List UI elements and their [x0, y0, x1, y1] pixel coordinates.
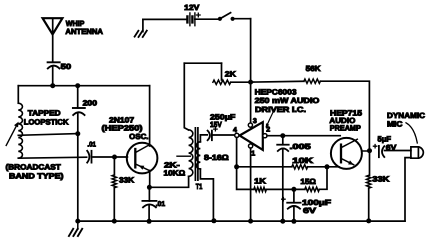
- junction emitter/.01/xfmr: [147, 185, 152, 190]
- op-amp U1 pin 2 terminal: [263, 134, 267, 138]
- wire supply vertical to pin 3: [250, 19, 252, 123]
- resistor 56K: [304, 79, 320, 83]
- microphone dynamic mic symbol: [411, 147, 423, 158]
- svg-text:PREAMP: PREAMP: [330, 123, 361, 132]
- inductor L1 tapped loopstick: [18, 103, 22, 158]
- transformer T1 secondary winding: [197, 142, 201, 169]
- op-amp U1 HEPC6003 triangle: [240, 122, 263, 150]
- wire 200pF top lead: [77, 86, 79, 108]
- transistor Q2 emitter: [341, 158, 354, 164]
- wire 100uF to ground rail: [293, 207, 295, 222]
- wire collector stub: [362, 150, 370, 152]
- transformer T1 primary tap leader: [177, 155, 190, 157]
- svg-text:T1: T1: [196, 182, 203, 191]
- capacitor .01 emitter bypass: [142, 201, 156, 207]
- wire mic bottom lead: [405, 158, 411, 221]
- svg-text:10KΩ: 10KΩ: [164, 169, 186, 178]
- capacitor 250uF: [208, 131, 212, 141]
- svg-text:250 mW AUDIO: 250 mW AUDIO: [255, 96, 320, 105]
- transistor Q2 HEP715 circle: [331, 138, 362, 169]
- transistor Q1 base bar: [134, 149, 136, 167]
- junction collector node: [367, 148, 372, 153]
- svg-text:10K: 10K: [292, 156, 313, 165]
- svg-text:DRIVER I.C.: DRIVER I.C.: [255, 105, 306, 114]
- pointer DRIVER IC to pin 2: [266, 112, 273, 128]
- svg-text:BAND TYPE): BAND TYPE): [9, 171, 64, 180]
- wire emitter down: [149, 171, 151, 188]
- wire 100uF top lead: [293, 189, 295, 202]
- resistor 2K: [213, 80, 231, 84]
- wire battery ground drop: [142, 19, 144, 31]
- svg-text:TAPPED: TAPPED: [28, 108, 61, 117]
- junction rail/tank: [75, 219, 80, 224]
- svg-text:2: 2: [266, 127, 270, 134]
- svg-text:.005: .005: [290, 142, 312, 151]
- op-amp U1 pin 1 terminal: [249, 144, 253, 148]
- wire .005 to ground rail: [282, 149, 284, 221]
- wire antenna feed: [52, 18, 54, 62]
- wire 2K loop left vertical: [184, 63, 188, 130]
- svg-text:50: 50: [61, 62, 72, 71]
- wire 33K bottom lead: [113, 188, 115, 221]
- wire switch to supply corner: [233, 18, 251, 20]
- junction rail/33K left: [112, 219, 117, 224]
- transistor Q1 emitter: [135, 164, 150, 171]
- wire loopstick tap: [18, 134, 78, 136]
- wire 2K to supply junction: [231, 81, 251, 83]
- wire pin 1 to ground rail: [250, 148, 252, 221]
- junction rail/secondary: [211, 218, 216, 223]
- wire .01 cap to 2N107 base: [93, 156, 127, 158]
- label 250uF plus: [214, 127, 217, 130]
- svg-text:12V: 12V: [184, 3, 200, 12]
- wire battery to switch: [195, 18, 220, 20]
- capacitor 5uF: [379, 146, 384, 157]
- label battery plus: [197, 13, 201, 17]
- junction tap/200pF: [75, 131, 80, 136]
- wire 50pF to tank rail: [52, 66, 54, 86]
- svg-text:2K: 2K: [225, 70, 237, 79]
- wire emitter to transformer primary bottom: [149, 176, 188, 187]
- svg-text:15V: 15V: [210, 120, 223, 129]
- wire 1K branch down: [237, 167, 254, 190]
- pointer MIC label: [406, 123, 417, 143]
- wire pin 2 to HEP715 collector wire: [267, 135, 340, 137]
- svg-text:HEPC6003: HEPC6003: [255, 87, 297, 96]
- junction tank rail/200pF: [75, 83, 80, 88]
- junction 100uF top: [291, 187, 296, 192]
- transistor Q2 collector: [341, 139, 357, 148]
- svg-text:200: 200: [83, 99, 98, 108]
- svg-text:56K: 56K: [306, 64, 322, 73]
- capacitor 50pF: [48, 62, 60, 68]
- svg-text:1: 1: [251, 150, 255, 157]
- wire .005 branch: [282, 136, 284, 145]
- junction pin2/.005: [280, 133, 285, 138]
- junction rail/.005: [280, 219, 285, 224]
- svg-text:(BROADCAST: (BROADCAST: [6, 162, 62, 171]
- junction rail/100uF: [291, 219, 296, 224]
- junction rail/.01 bypass: [147, 219, 152, 224]
- transformer T1 primary winding: [189, 130, 193, 177]
- ground chassis at battery: [135, 31, 147, 37]
- junction V+ rail: [248, 80, 253, 85]
- junction base/33K: [112, 155, 117, 160]
- junction rail/33K right: [366, 218, 371, 223]
- wire 1K to 15 ohm: [266, 188, 304, 190]
- inductor L1 slider arrow: [6, 122, 18, 146]
- wire secondary bottom lead: [200, 169, 213, 221]
- switch S1 contact right: [231, 17, 235, 21]
- wire V+ to 56K: [251, 80, 304, 83]
- resistor 33K oscillator bias: [112, 175, 116, 188]
- transformer T1 core: [195, 128, 198, 180]
- svg-text:MIC: MIC: [387, 119, 403, 128]
- resistor 33K preamp: [367, 175, 371, 188]
- wire 10K to base junction: [308, 166, 339, 168]
- transistor Q1 collector: [135, 145, 149, 153]
- junction antenna/tank rail: [50, 83, 55, 88]
- svg-text:8-16Ω: 8-16Ω: [204, 153, 229, 162]
- svg-text:.01: .01: [87, 142, 96, 149]
- wire 33K top lead: [113, 157, 115, 175]
- wire ground rail: [78, 220, 405, 222]
- svg-text:OSC.: OSC.: [129, 132, 148, 141]
- wire battery left lead: [143, 18, 187, 20]
- svg-text:ANTENNA: ANTENNA: [65, 27, 103, 36]
- svg-text:.01: .01: [156, 201, 165, 208]
- transistor Q1 2N107 circle: [127, 143, 158, 174]
- wire 200pF bottom to ground rail: [77, 113, 79, 221]
- op-amp U1 pin 3 terminal: [248, 123, 252, 127]
- wire 5uF to mic: [385, 150, 411, 152]
- wire emitter junction to .01 bypass: [148, 187, 150, 201]
- wire 56K to collector rail: [320, 81, 369, 151]
- svg-text:33K: 33K: [119, 176, 135, 185]
- wire 2K loop top: [184, 62, 221, 64]
- transistor Q2 base bar: [340, 145, 342, 163]
- resistor 1K: [254, 187, 267, 191]
- svg-text:3: 3: [253, 118, 257, 125]
- battery B1 12V: [187, 13, 195, 26]
- capacitor .005: [277, 145, 289, 151]
- capacitor 100uF: [287, 203, 300, 209]
- switch S1 lever: [220, 13, 231, 19]
- svg-text:4: 4: [233, 127, 237, 134]
- capacitor 200pF: [73, 108, 85, 115]
- svg-text:33K: 33K: [372, 174, 390, 183]
- svg-text:1K: 1K: [254, 176, 266, 185]
- junction pin4/1K/10K node: [234, 164, 239, 169]
- wire .01 bypass to ground rail: [148, 205, 150, 222]
- antenna whip symbol: [43, 18, 63, 34]
- switch S1 contact left: [218, 17, 222, 21]
- wire tank left vertical: [17, 86, 19, 104]
- label 5uF plus: [373, 145, 376, 148]
- label 100uF plus: [282, 198, 285, 201]
- svg-text:LOOPSTICK: LOOPSTICK: [24, 117, 69, 126]
- wire tank rail down to 2N107 collector: [149, 86, 151, 146]
- wire tank bottom to .01 cap: [18, 157, 86, 158]
- op-amp U1 pin 4 terminal: [235, 133, 239, 137]
- capacitor .01 coupling: [87, 151, 91, 163]
- wire secondary top lead: [200, 135, 207, 142]
- wire 33K to ground rail: [368, 188, 370, 221]
- wire pin 4 down to feedback node: [236, 138, 238, 167]
- wire 15 ohm up to base junction: [319, 167, 327, 190]
- junction 15 ohm/base: [325, 164, 330, 169]
- resistor 15 ohm: [305, 187, 320, 191]
- ground chassis main: [69, 221, 82, 236]
- resistor 10K: [292, 165, 308, 169]
- wire collector node to 33K: [369, 151, 371, 176]
- svg-text:15Ω: 15Ω: [300, 177, 316, 186]
- wire 2K right vertical: [221, 63, 223, 80]
- wire 250uF to pin 4: [213, 134, 235, 136]
- junction rail/pin1: [248, 219, 253, 224]
- wire tank top rail: [18, 85, 149, 87]
- wire feedback node to 10K: [237, 166, 292, 168]
- svg-text:6V: 6V: [303, 206, 317, 215]
